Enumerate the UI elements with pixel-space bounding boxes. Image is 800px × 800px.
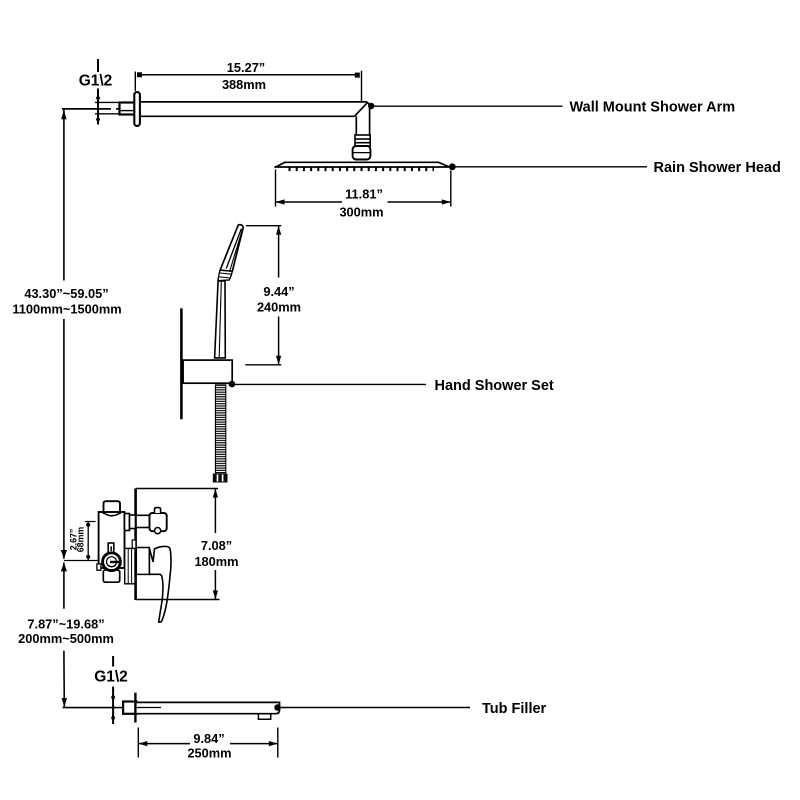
dimension 15.27 end dot left bbox=[137, 72, 142, 77]
shower arm horizontal tube bbox=[140, 102, 368, 116]
svg-text:G1\2: G1\2 bbox=[79, 73, 113, 90]
dimension 15.27in/388mm: extension lines bbox=[135, 71, 361, 102]
G1/2 tick diamond upper (bottom pipe) bbox=[111, 694, 115, 701]
upper outlet ring 2 bbox=[130, 515, 136, 529]
dimension 11.81in/300mm: line segments bbox=[276, 201, 451, 203]
diverter block bottom circle bbox=[155, 528, 161, 534]
svg-text:Wall Mount Shower Arm: Wall Mount Shower Arm bbox=[570, 100, 736, 116]
svg-text:43.30”~59.05”: 43.30”~59.05” bbox=[24, 286, 108, 301]
dimension 300mm arrow right bbox=[442, 199, 451, 204]
valve body main bbox=[99, 512, 125, 568]
dimension 9.44in/240mm: line bbox=[278, 226, 280, 365]
valve body shoulder arc bbox=[104, 513, 120, 516]
hand shower head blade bbox=[220, 225, 243, 272]
svg-text:11.81”: 11.81” bbox=[345, 187, 383, 202]
dimension 43.30 arrow bottom bbox=[61, 550, 67, 559]
pipe nipple thread stub bbox=[120, 103, 135, 115]
hand shower head edge line bbox=[230, 230, 243, 271]
dimension 180mm arrow bottom bbox=[213, 591, 218, 600]
G1/2 tick diamond lower (top pipe) bbox=[96, 116, 100, 123]
svg-text:388mm: 388mm bbox=[222, 77, 266, 92]
valve body top cap bbox=[104, 501, 121, 514]
wall centerline to dimension (top horizontal) bbox=[62, 108, 111, 110]
left vertical dimension 43.30-59.05: line bbox=[63, 110, 65, 559]
dimension 240mm arrow bottom bbox=[276, 356, 281, 365]
G1/2 tick diamond lower (bottom pipe) bbox=[111, 714, 115, 721]
shower hose coil bbox=[215, 385, 225, 473]
cartridge stack bbox=[125, 548, 135, 583]
svg-text:Rain Shower Head: Rain Shower Head bbox=[654, 160, 781, 176]
G1/2 centerline (bottom) bbox=[112, 656, 114, 724]
tub spout flange bbox=[134, 693, 136, 723]
tub spout inner line bbox=[137, 707, 161, 709]
dimension 2.67in/68mm: line bbox=[87, 522, 89, 561]
G1/2 tick diamond upper (top pipe) bbox=[96, 95, 100, 102]
upper outlet ring 1 bbox=[125, 514, 130, 531]
valve lower outlet bbox=[103, 570, 119, 582]
cartridge top tab bbox=[132, 540, 136, 549]
svg-text:7.08”: 7.08” bbox=[201, 538, 232, 553]
leader Wall Mount Shower Arm bbox=[368, 103, 374, 109]
diverter block top tab bbox=[155, 508, 161, 513]
pipe nipple (top) outline bbox=[95, 102, 120, 113]
dimension 9.44in/240mm: extension lines bbox=[245, 226, 281, 365]
svg-text:180mm: 180mm bbox=[194, 554, 238, 569]
svg-text:9.84”: 9.84” bbox=[193, 731, 224, 746]
dimension 2.67in/68mm: extension lines bbox=[64, 522, 99, 561]
hose end nut bbox=[213, 474, 228, 483]
valve trim plate (side view) bbox=[134, 489, 137, 601]
svg-text:7.87”~19.68”: 7.87”~19.68” bbox=[27, 617, 104, 632]
dimension 9.84in/250mm: line bbox=[138, 743, 277, 745]
dimension 7.87 arrow top bbox=[61, 563, 67, 572]
dimension 250mm arrow left bbox=[138, 741, 147, 746]
svg-text:300mm: 300mm bbox=[339, 205, 383, 220]
dimension 250mm arrow right bbox=[269, 741, 278, 746]
tub spout thread nipple bbox=[123, 702, 136, 714]
hand shower neck bbox=[218, 270, 232, 281]
dimension 68mm arrow top bbox=[86, 523, 90, 527]
tub spout centerline horizontal bbox=[63, 707, 123, 709]
dimension 15.27in/388mm: line bbox=[137, 74, 360, 76]
dimension 7.08in/180mm: extension lines bbox=[136, 489, 220, 600]
wall flange escutcheon bbox=[134, 92, 140, 126]
svg-text:15.27”: 15.27” bbox=[227, 60, 265, 75]
dimension 7.08in/180mm: line bbox=[214, 489, 216, 600]
dimension 240mm arrow top bbox=[276, 226, 281, 235]
upper outlet pipe bbox=[136, 515, 150, 527]
dimension 15.27 end dot right bbox=[355, 73, 360, 78]
knob stem slit bbox=[110, 546, 112, 551]
valve body bottom lip bbox=[97, 564, 101, 570]
dimension 68mm arrow bottom bbox=[86, 555, 90, 559]
arm collar bbox=[355, 135, 370, 146]
leader Hand Shower Set bbox=[229, 381, 236, 388]
dimension 43.30 arrow top bbox=[61, 110, 66, 120]
leader Tub Filler bbox=[274, 704, 281, 711]
left vertical dimension 7.87-19.68: line bbox=[63, 563, 65, 707]
dimension 300mm arrow left bbox=[276, 199, 285, 204]
dimension 180mm arrow top bbox=[213, 489, 218, 498]
svg-text:1100mm~1500mm: 1100mm~1500mm bbox=[12, 302, 121, 317]
centerline dash at nipple bbox=[116, 108, 119, 110]
G1/2 centerline (top) bbox=[97, 59, 99, 125]
svg-text:250mm: 250mm bbox=[187, 746, 231, 761]
hand shower handle bbox=[215, 281, 226, 358]
dimension 11.81in/300mm: extension lines bbox=[276, 170, 451, 207]
leader Rain Shower Head bbox=[449, 163, 456, 170]
hand shower handle inner line bbox=[219, 281, 221, 358]
dimension 7.87 arrow bottom bbox=[62, 698, 67, 707]
svg-text:9.44”: 9.44” bbox=[263, 284, 294, 299]
svg-text:240mm: 240mm bbox=[257, 299, 301, 314]
tub spout aerator bbox=[258, 714, 270, 720]
tub spout body bbox=[137, 702, 280, 713]
knob outer ring bbox=[103, 553, 121, 571]
hand shower head face line bbox=[226, 229, 241, 269]
svg-text:200mm~500mm: 200mm~500mm bbox=[18, 631, 114, 646]
dimension 9.84in/250mm: extension lines bbox=[138, 728, 277, 758]
pipe nipple mid line bbox=[120, 110, 135, 112]
handle lever bbox=[149, 546, 171, 622]
shower arm vertical drop pipe bbox=[356, 102, 369, 135]
svg-text:Hand Shower Set: Hand Shower Set bbox=[435, 378, 554, 394]
diverter block bbox=[150, 513, 167, 531]
holder bracket bbox=[183, 360, 232, 383]
slide bar bbox=[180, 308, 183, 419]
knob stem bbox=[108, 543, 114, 553]
handle hub bbox=[136, 548, 149, 575]
svg-text:G1\2: G1\2 bbox=[94, 669, 128, 686]
knob inner detail bbox=[107, 557, 120, 567]
rain shower head panel bbox=[274, 162, 451, 167]
svg-text:68mm: 68mm bbox=[76, 527, 86, 553]
nozzles under shower head bbox=[289, 168, 435, 172]
arm connector nut bbox=[353, 146, 371, 160]
svg-text:Tub Filler: Tub Filler bbox=[482, 701, 547, 717]
hand shower neck ridge lines bbox=[219, 273, 232, 278]
arm connector nut mid line bbox=[353, 152, 371, 154]
